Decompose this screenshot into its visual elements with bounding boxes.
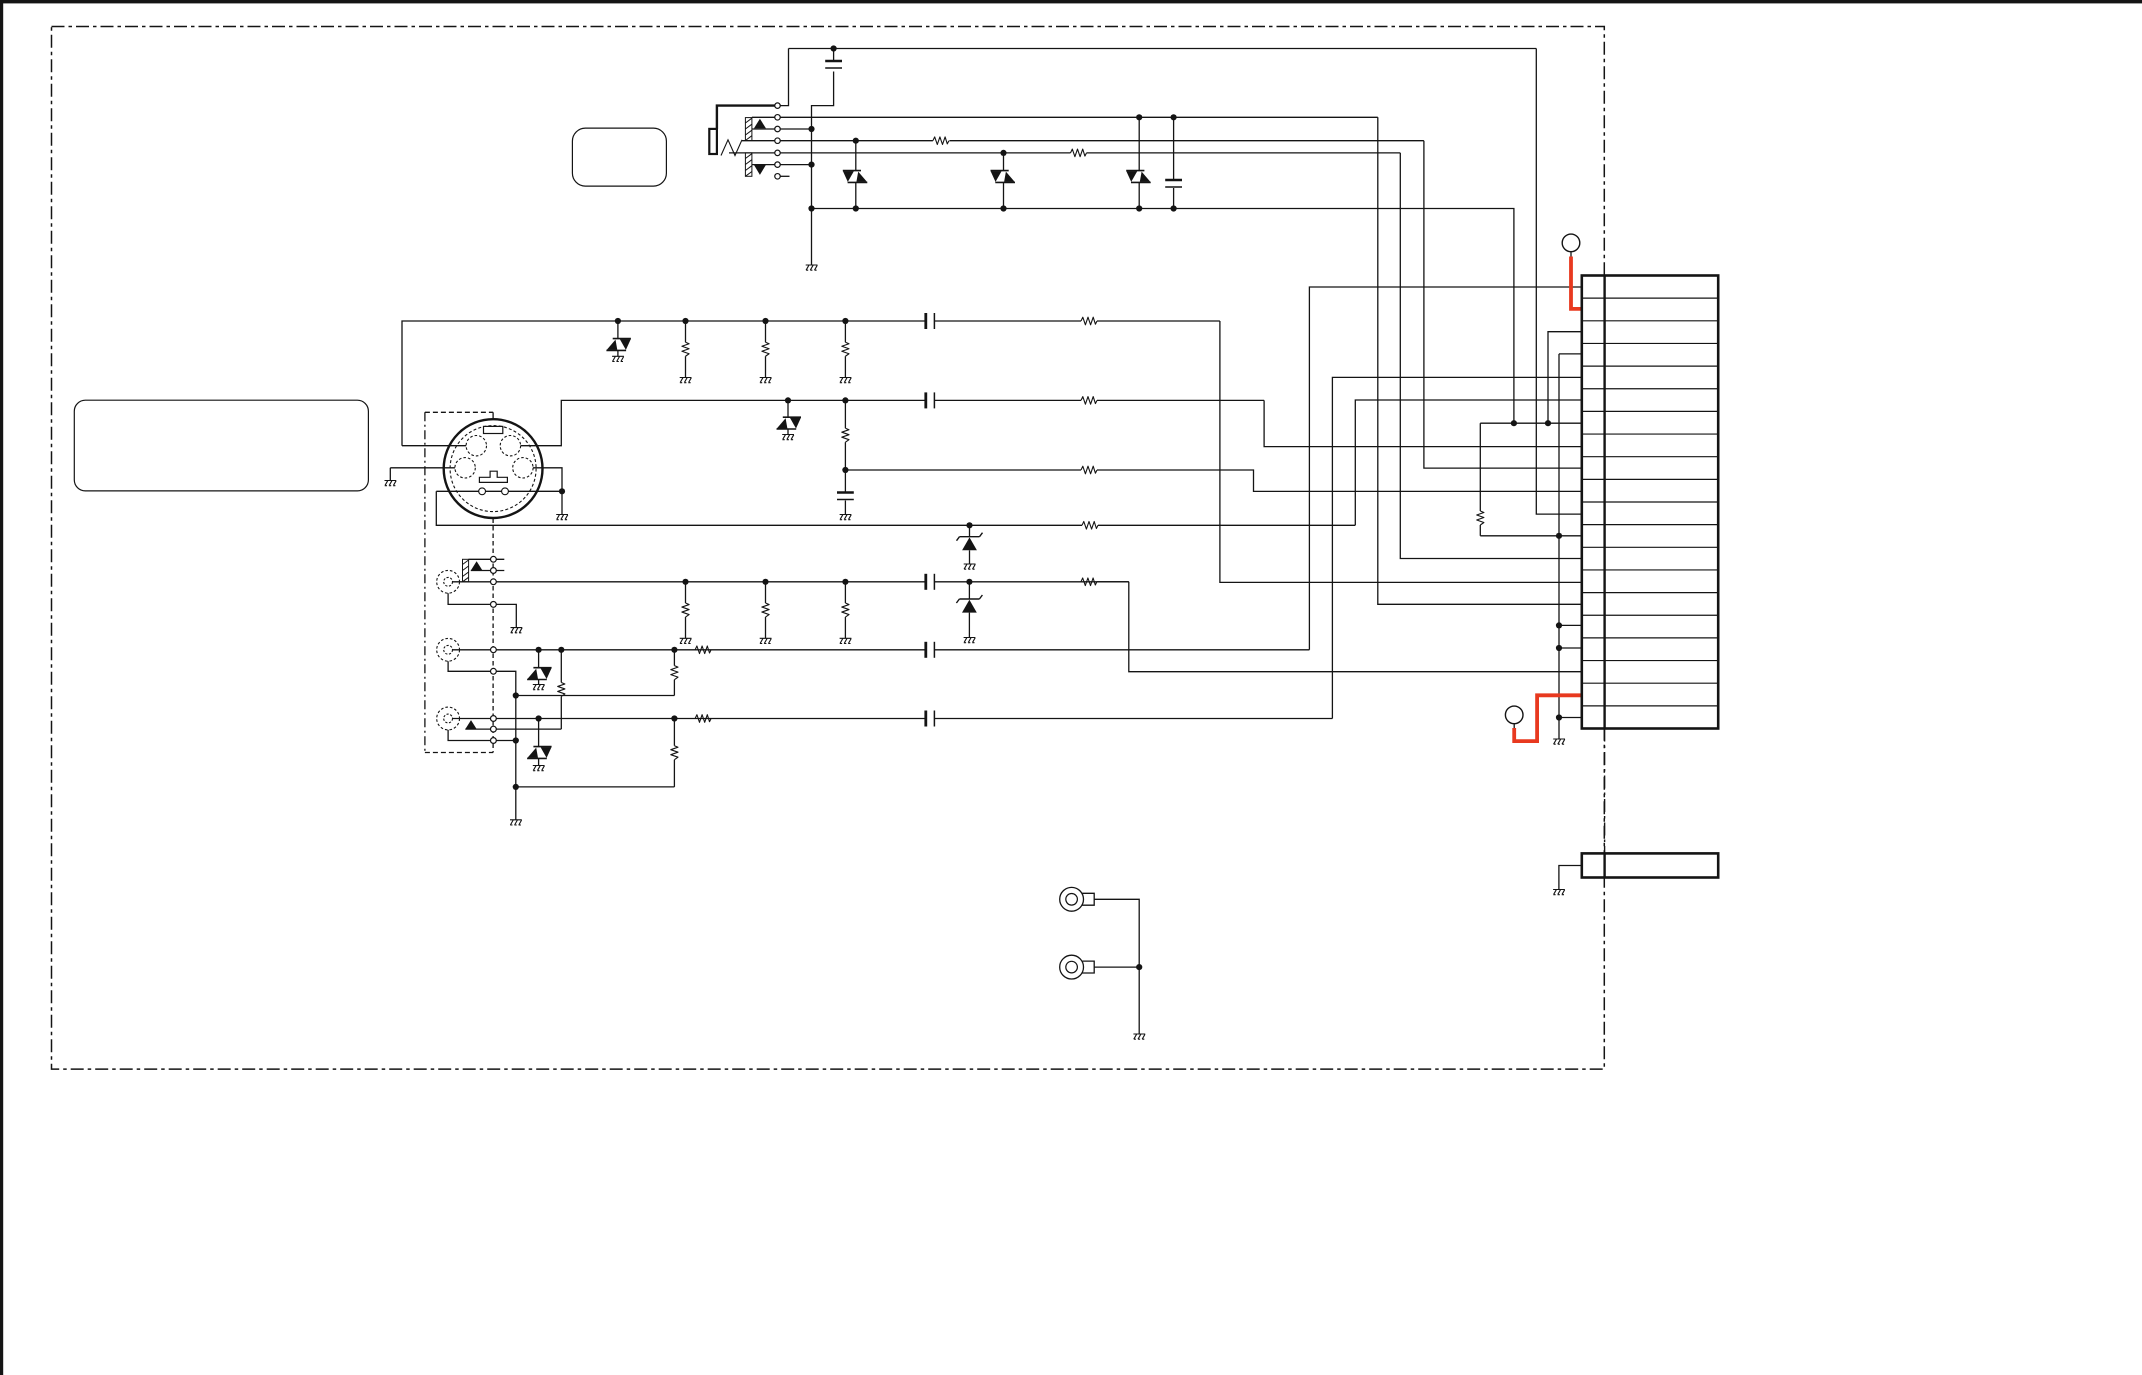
wire pin5 net to connector row13 — [1400, 153, 1582, 559]
capacitor C6 — [924, 711, 927, 727]
resistor R2 — [1071, 149, 1087, 157]
wire pin1 to riser — [780, 49, 788, 106]
wire pin3 stub — [752, 128, 812, 130]
wire pin2 row — [780, 116, 1378, 118]
wire RCA J2 shield — [448, 593, 516, 627]
capacitor C2 — [1171, 114, 1177, 120]
wire pin2 stub — [752, 116, 775, 118]
wire svideo shield pins — [436, 490, 562, 492]
wire pin4 left — [742, 140, 775, 142]
resistor R3 — [682, 318, 688, 324]
wire R12 return — [516, 695, 675, 697]
resistor R14 — [671, 715, 677, 721]
AV jack switch arrow down — [754, 165, 766, 175]
ground svideo pin2 — [556, 515, 568, 520]
resistor R6 — [842, 397, 848, 403]
wire pin4 row — [780, 140, 933, 142]
wire row F to connector row5 — [1332, 377, 1581, 718]
resistor R17 — [1082, 522, 1098, 530]
RCA jack J2 (video) — [437, 570, 460, 593]
wire svideo pin2 right — [532, 468, 562, 515]
S-video top notch — [484, 426, 503, 433]
wire pin5 left — [729, 152, 775, 154]
AV jack switch arrow up — [754, 119, 766, 129]
wire row E — [453, 649, 926, 651]
ground RCA shield chain — [510, 820, 522, 825]
terminal T2 — [1505, 706, 1523, 724]
wire pin5 row — [780, 152, 1070, 154]
resistor R16 — [1479, 423, 1481, 511]
resistor R15 — [695, 715, 711, 723]
capacitor C4 — [924, 574, 927, 590]
ground D5 — [782, 435, 794, 440]
wire shield bus row G — [436, 491, 1082, 525]
connector CN2 divider — [1603, 853, 1605, 877]
resistor R7 — [682, 579, 688, 585]
wire row E to connector row1 — [1309, 287, 1581, 650]
wire svideo pin1 left + ground — [390, 467, 456, 469]
dash-dot boundary through connector gap — [1604, 729, 1606, 854]
wire E1 — [1094, 899, 1139, 967]
wire R14 return — [516, 786, 675, 788]
jack block center dashed line — [492, 519, 494, 753]
capacitor C8 — [924, 392, 927, 408]
wire connector row7 net — [1480, 422, 1582, 424]
wire pin7 stub — [780, 175, 789, 177]
wire E2 — [1094, 966, 1139, 968]
ground CN2 — [1553, 890, 1565, 895]
zener D8 — [966, 522, 972, 528]
ground D4 — [612, 356, 624, 361]
resistor R10 — [1081, 578, 1097, 586]
ring terminal E1 — [1060, 887, 1084, 911]
ground RCA J2 — [511, 628, 523, 633]
wire row B — [520, 400, 926, 445]
wire row3 riser — [1548, 332, 1582, 424]
ring terminal E2 — [1060, 955, 1084, 979]
wire row C to connector row10 — [842, 467, 848, 473]
resistor R9 — [842, 579, 848, 585]
diode D2 — [1000, 150, 1006, 156]
wire row G to connector row6 — [1355, 400, 1582, 525]
jack pins — [775, 103, 781, 109]
connector CN1 divider — [1603, 276, 1605, 729]
AV jack body hatched bar upper — [745, 118, 752, 141]
resistor R4 — [762, 318, 768, 324]
RCA J2 switch arrow — [471, 561, 483, 570]
AV jack body hatched bar lower — [745, 153, 752, 176]
connector CN1 — [1582, 276, 1718, 729]
AV jack spring contact — [721, 140, 742, 156]
diode D4 — [615, 318, 621, 324]
red wire to connector row19 — [1514, 695, 1582, 741]
resistor R20 — [1081, 466, 1097, 474]
wire row A — [402, 321, 926, 446]
terminal T1 — [1562, 234, 1580, 252]
S-video key — [479, 471, 507, 482]
wire R16 to connector row12 — [1480, 535, 1582, 537]
ground R8 — [760, 638, 772, 643]
label box (blank) left — [74, 400, 368, 491]
resistor R13 — [695, 646, 711, 654]
diode D1 — [853, 138, 859, 144]
wire CN2 ground — [1559, 866, 1582, 890]
ground R7 — [680, 638, 692, 643]
zener D9 — [966, 579, 972, 585]
resistor R1 — [933, 137, 949, 145]
ground D9 — [964, 638, 976, 643]
S-video pin circles — [466, 436, 486, 456]
wire pin1 net to connector row11 — [1536, 49, 1582, 515]
ground D6 — [533, 685, 545, 690]
label box (blank) top — [572, 128, 666, 186]
resistor R8 — [762, 579, 768, 585]
ground R4 — [760, 378, 772, 383]
wire RCA J4 shield — [448, 730, 516, 741]
diode D3 — [1136, 114, 1142, 120]
wire row D to connector row18 — [1129, 582, 1582, 672]
page frame top rule — [0, 0, 2142, 3]
capacitor C3 — [844, 470, 846, 492]
capacitor C5 — [924, 642, 927, 658]
wire row A to connector row14 — [1220, 321, 1582, 582]
dash-dot board boundary — [52, 27, 1605, 1070]
wire ground rail — [1558, 354, 1560, 739]
diode D6 — [536, 647, 542, 653]
wire svideo pin3 left — [402, 445, 467, 447]
capacitor C7 — [924, 313, 927, 329]
wire top net y48 — [789, 48, 1537, 50]
ground jack — [806, 265, 818, 270]
ground R3 — [680, 378, 692, 383]
jack block dash-dot boundary — [424, 412, 426, 752]
RCA jack J4 (audio) — [437, 707, 460, 730]
RCA contact circles — [491, 556, 497, 562]
AV jack J1 plug body — [717, 106, 775, 129]
ground R5 — [840, 378, 852, 383]
resistor R5 — [842, 318, 848, 324]
diode D7 — [536, 715, 542, 721]
connector CN2 — [1582, 853, 1718, 877]
RCA jack J3 (audio) — [437, 638, 460, 661]
resistor R12 — [671, 647, 677, 653]
S-video connector outer ring — [444, 419, 543, 518]
wire row F — [453, 718, 926, 720]
wire pin4 net to connector row9 — [1424, 141, 1582, 468]
ground D8 — [964, 564, 976, 569]
wire J4 switch contact — [465, 728, 561, 730]
page frame left rule — [0, 0, 3, 1375]
wire row B to connector row8 — [1264, 400, 1582, 446]
ground R9 — [840, 638, 852, 643]
resistor R18 — [1081, 317, 1097, 325]
ground C3 — [840, 515, 852, 520]
wire RCA J3 shield — [448, 661, 516, 820]
resistor R11 — [558, 647, 564, 653]
RCA J4 switch arrow — [465, 720, 476, 729]
RCA J2 hatched bar — [463, 559, 469, 582]
ground D7 — [533, 766, 545, 771]
resistor R19 — [1081, 397, 1097, 405]
wire pin6 stub — [752, 164, 812, 166]
diode D5 — [785, 397, 791, 403]
red wire to connector row2 — [1571, 257, 1582, 309]
wire gnd bus top — [812, 209, 1514, 424]
ground rail — [1553, 739, 1565, 744]
node jack ground column — [812, 72, 834, 266]
capacitor C1 — [833, 49, 835, 61]
RCA J2 switch contact stubs — [469, 558, 505, 560]
wire row D — [453, 581, 926, 583]
ground ring terminals — [1133, 1034, 1145, 1039]
S-video small pins — [479, 488, 486, 495]
wire pin2 net to connector row15 — [1378, 117, 1582, 604]
